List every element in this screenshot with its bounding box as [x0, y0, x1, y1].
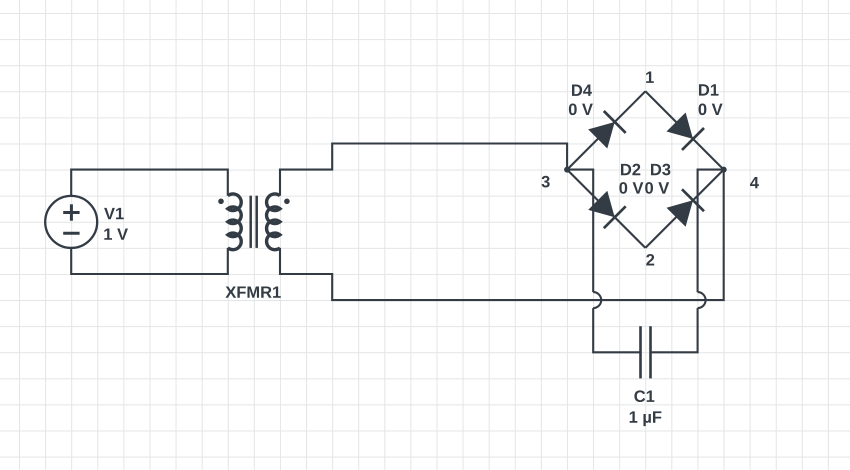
wire: node 3 to capacitor left feed (with hop over bottom wire)	[567, 170, 593, 293]
V1 minus sign	[63, 232, 79, 235]
wire: V1 bottom lead and primary bottom wire	[71, 248, 228, 274]
wire: secondary top to bridge node 3	[280, 144, 567, 196]
node 3 junction dot	[564, 167, 570, 173]
label D1 value 0 V	[699, 103, 723, 115]
diode D1 (edge 1 to 4)	[667, 113, 705, 150]
node 4 number	[750, 177, 759, 188]
bridge edge 3-2	[567, 170, 645, 248]
wire: V1 top lead and primary top wire	[71, 170, 228, 196]
V1 plus sign	[63, 204, 79, 220]
capacitor C1 plates	[641, 326, 651, 378]
label D2 value 0 V	[619, 182, 643, 194]
label D3 value 0 V	[645, 182, 669, 194]
bridge edge 3-1	[567, 91, 645, 169]
label XFMR1	[225, 286, 280, 297]
transformer polarity dot primary	[218, 199, 224, 205]
label 1 V	[104, 228, 128, 239]
transformer XFMR1 primary coil	[228, 194, 241, 250]
node 2 number	[646, 254, 654, 266]
wire: node 4 to capacitor right feed (with hop over bottom wire)	[698, 170, 724, 293]
node 3 number	[541, 176, 549, 188]
transformer core	[251, 196, 257, 248]
label D4 value 0 V	[569, 103, 593, 115]
label D3	[651, 164, 670, 176]
diode D2 (edge 3 to 2)	[588, 191, 626, 228]
label D1	[699, 84, 719, 95]
voltage source V1 circle	[45, 196, 97, 248]
transformer polarity dot secondary	[284, 199, 290, 205]
label V1	[104, 208, 124, 219]
label D4	[572, 85, 592, 96]
label C1 value 1 uF	[630, 411, 662, 426]
label D2	[621, 164, 640, 176]
node 4 junction dot	[721, 167, 727, 173]
diode D3 (edge 2 to 4)	[667, 189, 705, 226]
node 1 number	[646, 72, 654, 83]
diode D4 (edge 3 to 1)	[588, 111, 626, 149]
transformer XFMR1 secondary coil	[267, 194, 280, 250]
wire: secondary bottom to bridge node 4	[280, 170, 724, 301]
label C1	[634, 390, 654, 402]
bridge edge 1-4	[645, 91, 723, 169]
bridge edge 2-4	[645, 170, 723, 248]
